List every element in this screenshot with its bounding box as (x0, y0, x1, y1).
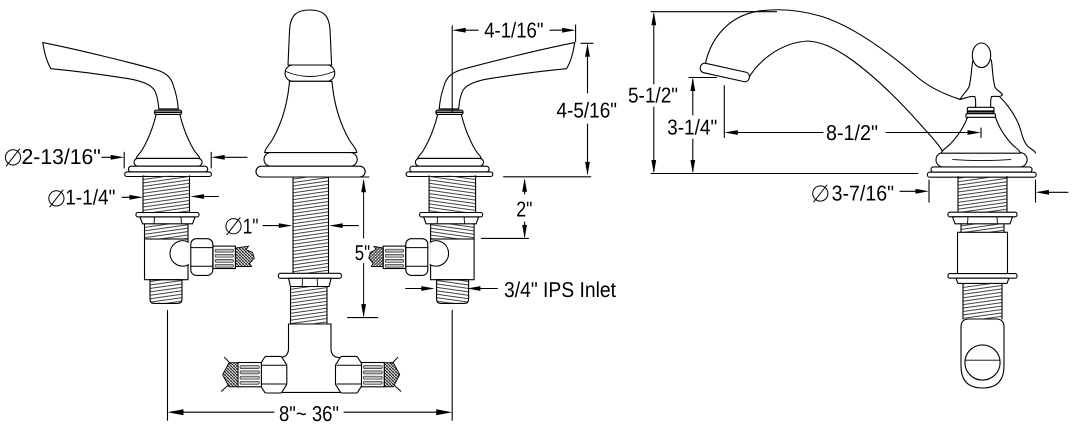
valve inlet nipple (150, 280, 182, 304)
center lower threads (291, 287, 328, 325)
valve shank threads (143, 176, 190, 213)
side mid threads (961, 224, 1004, 233)
svg-text:3-1/4": 3-1/4" (667, 116, 717, 140)
svg-text:2": 2" (516, 198, 532, 222)
spout dome cap (288, 10, 332, 65)
spout bell body (265, 81, 357, 152)
side handle collar bands (967, 107, 994, 113)
tee right ferrule (362, 363, 385, 387)
ferrule ribs (213, 246, 235, 268)
svg-text:4-1/16": 4-1/16" (484, 18, 543, 42)
left valve V1 (136, 176, 254, 304)
valve threads below locknut (431, 224, 475, 239)
svg-text:1-1/4": 1-1/4" (65, 186, 115, 210)
braided hose end (235, 246, 254, 266)
side spout right skirt (995, 93, 1036, 154)
svg-text:3/4" IPS Inlet: 3/4" IPS Inlet (504, 278, 616, 302)
dim 1-1/4 (49, 190, 64, 207)
side shank threads (958, 177, 1007, 213)
handle bell (418, 115, 482, 159)
compression nut (191, 239, 213, 276)
side handle pawn oval (972, 43, 990, 68)
side handle pawn neck (960, 60, 1002, 108)
tee right braid (384, 363, 399, 387)
left handle H1 (43, 43, 212, 177)
handle lever (439, 43, 575, 109)
side outlet end (961, 319, 1004, 388)
side locknut (948, 212, 1017, 217)
valve shank threads (429, 176, 476, 213)
deck tick (504, 176, 591, 178)
valve body (145, 239, 189, 280)
spout base rings (264, 153, 357, 167)
spout shank threads (293, 177, 329, 273)
handle lever (43, 43, 179, 109)
dim 3-7/16 (813, 185, 828, 202)
tee right nut (335, 356, 362, 393)
side body cylinder (958, 232, 1008, 273)
valve inlet nipple (437, 280, 469, 304)
svg-text:5-1/2": 5-1/2" (628, 84, 678, 108)
center locknut (278, 273, 341, 278)
handle collar (155, 110, 182, 114)
baseline right view (651, 173, 918, 175)
handle bell (136, 115, 200, 159)
side spout tip collar (699, 62, 750, 82)
svg-text:4-5/16": 4-5/16" (557, 99, 618, 123)
svg-text:1": 1" (243, 215, 259, 239)
svg-text:3-7/16": 3-7/16" (832, 182, 895, 206)
side bell (941, 117, 1020, 153)
right valve V2 (369, 176, 483, 304)
right handle H2 (406, 43, 575, 177)
spout collar ring (285, 65, 335, 81)
svg-text:8-1/2": 8-1/2" (826, 121, 878, 145)
side spout tube (705, 10, 960, 152)
valve threads below locknut (145, 224, 189, 239)
compression nut (406, 239, 428, 276)
ferrule ribs (383, 246, 405, 268)
side base bands (931, 167, 1032, 172)
braided hose end (369, 246, 383, 266)
side outlet opening (965, 345, 1000, 380)
valve body (431, 239, 475, 280)
handle base rings (134, 158, 202, 166)
tee fitting body (268, 324, 352, 392)
side lower flange (948, 274, 1017, 279)
svg-text:5": 5" (355, 241, 370, 265)
valve locknut (136, 213, 199, 217)
svg-text:2-13/16": 2-13/16" (22, 145, 101, 169)
handle collar (436, 110, 463, 114)
dim 2-13/16 (5, 149, 20, 166)
tee left ferrule (238, 363, 261, 387)
dim diam 1 (226, 218, 241, 235)
valve boss (170, 241, 188, 266)
tee left nut (260, 356, 287, 393)
handle base rings (415, 158, 483, 166)
side lower threads (963, 283, 1002, 319)
valve boss (430, 241, 448, 266)
svg-text:8"~ 36": 8"~ 36" (279, 402, 339, 426)
side base skirt (936, 153, 1027, 168)
valve locknut (420, 213, 483, 217)
tee left braid (223, 363, 238, 387)
